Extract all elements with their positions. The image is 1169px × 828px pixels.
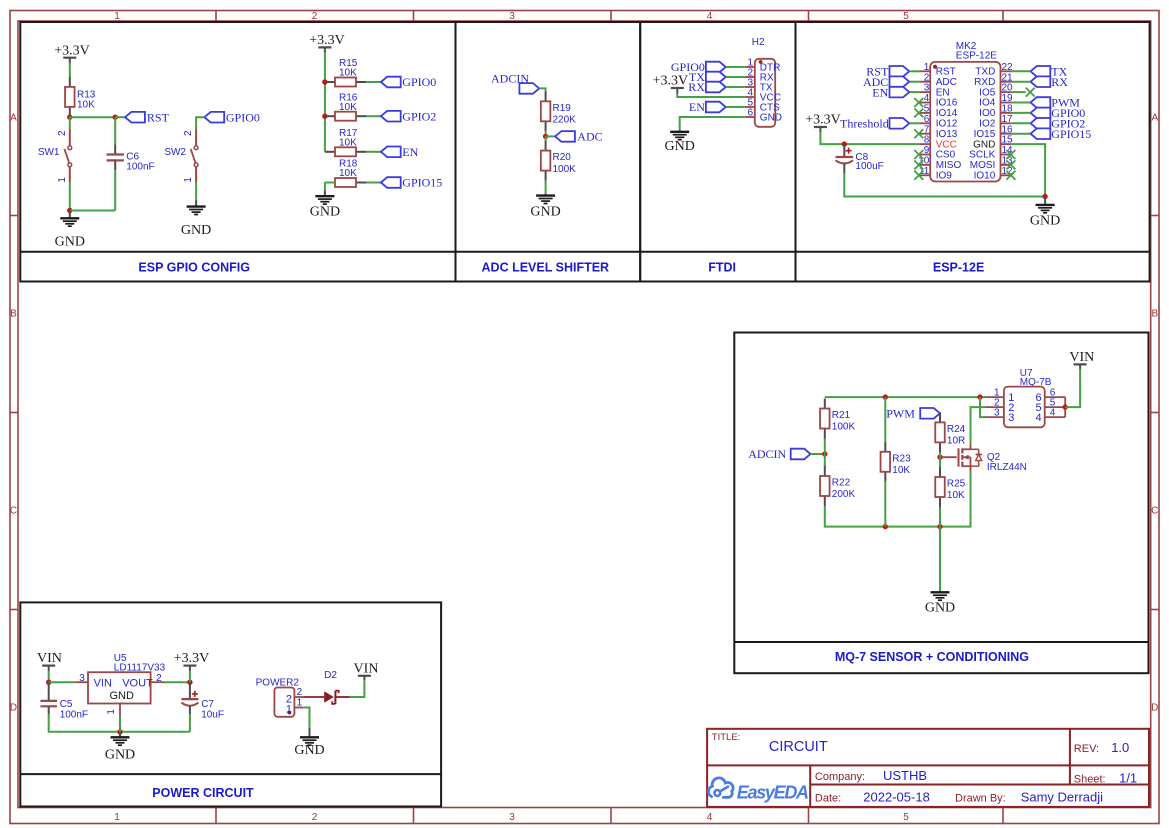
- svg-text:1: 1: [183, 177, 194, 183]
- wire: [820, 132, 919, 144]
- label Q2 IRLZ44N: [987, 452, 1027, 473]
- pin number 1 (U5): [106, 709, 117, 715]
- title block label TITLE:: [712, 732, 741, 743]
- svg-text:2022-05-18: 2022-05-18: [863, 789, 930, 804]
- svg-text:USTHB: USTHB: [883, 768, 927, 783]
- svg-text:SW1: SW1: [38, 147, 60, 158]
- power flag +3.3V (pull resistors): [309, 33, 345, 53]
- power flag +3.3V (FTDI): [653, 74, 689, 94]
- svg-text:100nF: 100nF: [126, 161, 154, 172]
- svg-text:2: 2: [297, 687, 303, 698]
- label R17 10K: [339, 128, 358, 149]
- label R18 10K: [339, 159, 358, 180]
- pin-1 marker dot MK2: [933, 65, 937, 69]
- title block label Company:: [815, 771, 865, 783]
- section box ESP-12E: [796, 22, 1150, 282]
- wire: [844, 173, 1045, 197]
- net flag ADC: [555, 130, 603, 144]
- svg-text:PWM: PWM: [886, 407, 915, 421]
- svg-text:GND: GND: [1030, 214, 1060, 229]
- svg-text:SW2: SW2: [164, 147, 186, 158]
- node junction VIN/C5/U5: [46, 680, 51, 685]
- svg-text:5: 5: [924, 104, 930, 115]
- switch SW2: [191, 130, 198, 183]
- wire: [366, 151, 381, 153]
- POWER2 pin names 2 1: [286, 693, 292, 715]
- power flag +3.3V (power out): [174, 651, 210, 671]
- wire: [545, 131, 547, 136]
- label R13 10K: [77, 90, 96, 111]
- svg-text:10K: 10K: [339, 168, 357, 179]
- svg-text:Sheet:: Sheet:: [1074, 774, 1106, 786]
- wire: [195, 182, 197, 200]
- svg-text:100nF: 100nF: [60, 710, 88, 721]
- svg-text:CS0: CS0: [936, 150, 956, 161]
- net flag PWM: [886, 407, 940, 421]
- label R21 100K: [832, 410, 856, 433]
- svg-text:1: 1: [57, 177, 68, 183]
- ruler letters left: [10, 113, 17, 714]
- svg-text:Date:: Date:: [815, 792, 841, 804]
- svg-text:1: 1: [114, 11, 120, 22]
- svg-text:C: C: [1151, 506, 1158, 517]
- section box FTDI: [640, 22, 795, 282]
- wire: [69, 63, 71, 78]
- svg-text:GND: GND: [530, 204, 560, 219]
- ruler letters right: [1151, 113, 1158, 714]
- svg-text:ESP-12E: ESP-12E: [933, 261, 984, 275]
- net flag TX (FTDI): [689, 70, 726, 84]
- label C7 10uF: [201, 699, 224, 721]
- EasyEDA logo wordmark: [737, 783, 808, 803]
- resistor R20: [541, 141, 551, 181]
- resistor R18: [325, 178, 366, 187]
- svg-text:3: 3: [994, 408, 1000, 419]
- wire: [48, 671, 50, 682]
- ground GND (SW1): [55, 211, 85, 250]
- wire: [115, 116, 125, 118]
- title block label REV:: [1074, 743, 1099, 755]
- net flag ADC (ESP): [863, 75, 909, 89]
- svg-text:H2: H2: [752, 37, 765, 48]
- svg-text:+3.3V: +3.3V: [309, 33, 345, 48]
- svg-text:1: 1: [286, 703, 292, 715]
- section box ADC LEVEL SHIFTER: [456, 22, 641, 282]
- regulator U5 body: [88, 672, 151, 703]
- svg-text:Company:: Company:: [815, 771, 865, 783]
- label R23 10K: [892, 453, 911, 476]
- wire: [69, 117, 71, 129]
- node junction R15: [322, 79, 327, 84]
- polarity + mark C8: [846, 148, 852, 154]
- svg-text:1: 1: [106, 709, 117, 715]
- pin number 2 (SW2): [183, 130, 194, 136]
- wire: [49, 681, 75, 683]
- title block label Date:: [815, 792, 841, 804]
- U5 pin name GND: [109, 690, 134, 702]
- IC MK2 ESP-12E body: [930, 62, 1000, 182]
- wire: [1011, 112, 1031, 114]
- wire: [909, 81, 919, 83]
- svg-text:MOSI: MOSI: [970, 160, 996, 171]
- net flag EN (FTDI): [689, 100, 726, 114]
- svg-text:EN: EN: [689, 100, 705, 114]
- label SW1: [38, 147, 60, 158]
- net flag PWM (ESP): [1031, 96, 1081, 110]
- net flag RX (ESP): [1031, 75, 1069, 89]
- svg-text:A: A: [1151, 113, 1158, 124]
- label MK2 ESP-12E: [956, 41, 997, 61]
- svg-text:VIN: VIN: [37, 651, 62, 666]
- svg-text:200K: 200K: [832, 489, 856, 500]
- power flag VIN (D2): [354, 661, 379, 680]
- node junction R25 bottom / GND: [937, 524, 942, 529]
- svg-text:GND: GND: [294, 743, 324, 758]
- svg-text:VOUT: VOUT: [122, 677, 153, 689]
- net flag GPIO15 (ESP): [1031, 127, 1092, 141]
- pin number 2 (SW1): [57, 130, 68, 136]
- net flag TX (ESP): [1031, 65, 1068, 79]
- svg-text:POWER CIRCUIT: POWER CIRCUIT: [152, 786, 254, 800]
- svg-text:EN: EN: [936, 87, 950, 98]
- wire: [726, 106, 745, 108]
- svg-text:TITLE:: TITLE:: [712, 732, 741, 743]
- ruler ticks top: [216, 11, 1003, 22]
- resistor R21: [820, 399, 830, 439]
- svg-text:C: C: [10, 506, 17, 517]
- ground GND (ESP): [1030, 197, 1060, 229]
- ground GND (SW2): [181, 200, 211, 238]
- svg-text:2: 2: [312, 812, 318, 823]
- no-connect X pin 4: [914, 98, 923, 107]
- label H2: [752, 37, 765, 48]
- svg-text:8: 8: [924, 135, 930, 146]
- wire: [980, 397, 985, 417]
- header H2 pin names: [760, 63, 782, 124]
- title block value CIRCUIT: [769, 739, 828, 755]
- capacitor C7 (polarized): [181, 682, 198, 714]
- section box POWER CIRCUIT: [20, 602, 441, 806]
- svg-text:TXD: TXD: [975, 67, 995, 78]
- node junction VOUT/C7: [187, 680, 192, 685]
- wire: [114, 170, 116, 210]
- svg-text:IO13: IO13: [936, 129, 958, 140]
- svg-text:GPIO15: GPIO15: [402, 176, 442, 190]
- wire: [545, 181, 547, 194]
- svg-text:1: 1: [924, 62, 930, 73]
- header H2: [755, 59, 775, 127]
- section box MQ-7 SENSOR + CONDITIONING: [734, 333, 1148, 674]
- wire: [114, 117, 116, 144]
- connector POWER2: [274, 688, 294, 717]
- svg-text:ESP-12E: ESP-12E: [956, 50, 997, 61]
- title block frame: [707, 729, 1149, 808]
- wire: [324, 52, 326, 152]
- node junction ADCIN tap: [822, 451, 827, 456]
- svg-text:R20: R20: [553, 152, 572, 163]
- svg-text:2: 2: [183, 130, 194, 136]
- title block value USTHB: [883, 768, 927, 783]
- MK2 left pin stubs: [919, 71, 930, 175]
- svg-text:REV:: REV:: [1074, 743, 1099, 755]
- resistor R22: [820, 466, 830, 506]
- resistor R15: [325, 78, 366, 87]
- svg-text:R22: R22: [832, 478, 851, 489]
- net flag EN (ESP): [872, 85, 909, 99]
- title block value 2022-05-18: [863, 789, 930, 804]
- node junction R23 top: [883, 394, 888, 399]
- pin number 1 (SW2): [183, 177, 194, 183]
- U7 right pin names: [1035, 392, 1041, 424]
- wire: [811, 453, 825, 455]
- section box ESP GPIO CONFIG: [20, 22, 455, 282]
- U7 right pin stubs: [1045, 397, 1066, 417]
- svg-text:2: 2: [57, 130, 68, 136]
- MK2 left pin numbers: [918, 62, 930, 177]
- svg-text:10K: 10K: [339, 102, 357, 113]
- svg-text:D: D: [10, 703, 17, 714]
- svg-text:10K: 10K: [947, 490, 965, 501]
- svg-text:GPIO0: GPIO0: [402, 75, 436, 89]
- wire: [69, 182, 71, 211]
- svg-text:4: 4: [707, 11, 713, 22]
- node junction R16: [322, 114, 327, 119]
- svg-text:6: 6: [747, 108, 753, 119]
- svg-text:VIN: VIN: [94, 677, 112, 689]
- U7 left pin stubs: [985, 397, 1004, 417]
- svg-text:RXD: RXD: [974, 77, 995, 88]
- wire: [1065, 369, 1080, 408]
- title block label Drawn By:: [955, 792, 1006, 804]
- svg-text:VIN: VIN: [354, 661, 379, 676]
- node junction SW1/C6/GND: [67, 208, 72, 213]
- svg-text:C7: C7: [201, 699, 214, 710]
- no-connect X pin 7: [914, 129, 923, 138]
- header H2 pin stubs: [745, 67, 755, 117]
- wire: [884, 482, 886, 527]
- svg-text:D: D: [1151, 703, 1158, 714]
- POWER2 pin numbers 2 1: [297, 687, 303, 709]
- svg-text:GND: GND: [925, 601, 955, 616]
- svg-text:4: 4: [924, 93, 930, 104]
- svg-text:IO10: IO10: [974, 171, 996, 182]
- svg-text:VCC: VCC: [936, 139, 957, 150]
- diode D2 (schottky): [303, 691, 349, 704]
- label U7 MQ-7B: [1020, 368, 1052, 388]
- svg-text:R25: R25: [947, 479, 966, 490]
- svg-text:+3.3V: +3.3V: [174, 651, 210, 666]
- wire: [350, 680, 365, 697]
- svg-text:100K: 100K: [553, 164, 577, 175]
- no-connect X pin 11: [914, 171, 923, 180]
- svg-text:GND: GND: [55, 234, 85, 249]
- node junction C6/RST: [113, 115, 118, 120]
- U5 pin name VOUT: [122, 677, 153, 689]
- label R20 100K: [553, 152, 577, 175]
- no-connect X pin 9: [914, 150, 923, 159]
- power flag VIN (MQ7): [1069, 350, 1094, 369]
- svg-text:D2: D2: [324, 670, 337, 681]
- wire: [824, 439, 826, 467]
- no-connect X pin 13: [1006, 160, 1015, 169]
- svg-text:4: 4: [1035, 412, 1041, 424]
- svg-text:+3.3V: +3.3V: [54, 43, 90, 58]
- node junction ADC divider: [543, 134, 548, 139]
- wire: [909, 122, 919, 124]
- resistor R13: [65, 77, 75, 117]
- label SW2: [164, 147, 186, 158]
- svg-text:3: 3: [924, 83, 930, 94]
- label R22 200K: [832, 478, 856, 501]
- wire: [164, 681, 190, 683]
- svg-text:ADCIN: ADCIN: [748, 447, 786, 461]
- svg-text:1/1: 1/1: [1119, 771, 1137, 786]
- net flag GPIO15: [381, 176, 442, 190]
- svg-text:IO4: IO4: [979, 98, 996, 109]
- net flag EN: [381, 145, 419, 159]
- transistor Q2 IRLZ44N: [940, 444, 982, 471]
- resistor R24: [935, 412, 945, 452]
- regulator U5 pin stubs: [75, 682, 163, 716]
- ground GND (MQ7): [925, 592, 955, 616]
- wire: [971, 407, 986, 444]
- title block value 1/1: [1119, 771, 1137, 786]
- label C8 100uF: [855, 152, 883, 172]
- svg-text:1: 1: [114, 812, 120, 823]
- U7 right pins tie: [1064, 397, 1066, 417]
- svg-text:IO0: IO0: [979, 108, 996, 119]
- net flag RX (FTDI): [688, 80, 725, 94]
- pin-1 marker dot H2: [759, 60, 763, 64]
- wire: [726, 66, 745, 68]
- svg-text:VIN: VIN: [1069, 350, 1094, 365]
- wire: [539, 88, 545, 91]
- svg-text:GND: GND: [973, 139, 995, 150]
- ruler numbers top: [114, 11, 909, 22]
- label R15 10K: [339, 58, 358, 79]
- svg-text:MISO: MISO: [936, 160, 962, 171]
- wire: [726, 76, 745, 78]
- label POWER2: [256, 677, 300, 688]
- wire: [1011, 91, 1026, 93]
- U7 right pin numbers: [1050, 388, 1056, 419]
- svg-text:100uF: 100uF: [855, 161, 883, 172]
- svg-text:3: 3: [79, 673, 85, 684]
- svg-text:3: 3: [509, 11, 515, 22]
- wire: [909, 91, 919, 93]
- wire: [680, 117, 745, 131]
- wire: [49, 714, 190, 732]
- wire: [1011, 81, 1031, 83]
- node junction C8/VCC: [842, 141, 847, 146]
- resistor R17: [325, 147, 366, 156]
- U7 left pin names: [1008, 392, 1014, 424]
- wire: [884, 397, 886, 442]
- no-connect X pin 20: [1026, 88, 1035, 97]
- svg-text:2: 2: [312, 11, 318, 22]
- U7 left pin numbers: [994, 388, 1000, 419]
- svg-text:B: B: [1151, 309, 1158, 320]
- EasyEDA logo cloud: [708, 778, 733, 798]
- svg-text:1: 1: [297, 698, 303, 709]
- node junction U7 pin1: [977, 394, 982, 399]
- capacitor C6: [107, 144, 124, 170]
- wire: [196, 117, 204, 129]
- node junction U7 right pins: [1063, 404, 1068, 409]
- svg-text:6: 6: [924, 114, 930, 125]
- svg-text:5: 5: [903, 11, 909, 22]
- svg-text:GPIO0: GPIO0: [226, 110, 260, 124]
- svg-text:R24: R24: [947, 424, 966, 435]
- svg-text:9: 9: [924, 145, 930, 156]
- wire: [726, 86, 745, 88]
- svg-text:10K: 10K: [892, 465, 910, 476]
- svg-text:IO5: IO5: [979, 87, 996, 98]
- no-connect X pin 12: [1006, 171, 1015, 180]
- svg-text:10R: 10R: [947, 436, 965, 447]
- node junction R13/SW1/RST: [67, 115, 72, 120]
- node junction ESP GND: [1042, 194, 1047, 199]
- wire: [70, 116, 115, 118]
- svg-text:Threshold: Threshold: [840, 117, 889, 131]
- resistor R25: [935, 467, 945, 507]
- net flag GPIO0 (FTDI): [671, 60, 726, 74]
- svg-text:ADC: ADC: [577, 130, 602, 144]
- polarity + mark C7: [192, 691, 198, 697]
- net flag GPIO0: [381, 75, 436, 89]
- svg-text:EN: EN: [402, 145, 418, 159]
- wire: [366, 182, 381, 184]
- ruler ticks right: [1151, 216, 1159, 610]
- svg-text:5: 5: [903, 812, 909, 823]
- resistor R19: [541, 91, 551, 131]
- wire: [545, 136, 547, 140]
- header H2 pin numbers: [747, 58, 753, 119]
- svg-text:R19: R19: [553, 103, 572, 114]
- label R24 10R: [947, 424, 966, 447]
- wire: [825, 471, 971, 527]
- svg-text:GPIO15: GPIO15: [1051, 127, 1091, 141]
- svg-text:1.0: 1.0: [1111, 740, 1129, 755]
- ground GND (FTDI): [665, 131, 695, 154]
- no-connect X pin 14: [1006, 150, 1015, 159]
- svg-text:C5: C5: [60, 699, 73, 710]
- switch SW1: [64, 130, 71, 183]
- wire: [1011, 133, 1031, 135]
- wire: [325, 182, 335, 184]
- wire: [324, 183, 326, 191]
- svg-text:B: B: [10, 309, 17, 320]
- MK2 right pin numbers: [1002, 62, 1014, 177]
- MK2 right pin stubs: [1001, 71, 1011, 175]
- wire: [366, 81, 381, 83]
- svg-text:CIRCUIT: CIRCUIT: [769, 739, 828, 755]
- ruler numbers bottom: [114, 812, 909, 823]
- no-connect X pin 10: [914, 160, 923, 169]
- wire: [1011, 102, 1031, 104]
- label C6 100nF: [126, 151, 154, 172]
- MK2 right pin names: [969, 67, 996, 182]
- IC U7 MQ-7B body: [1004, 387, 1045, 428]
- label R25 10K: [947, 479, 966, 502]
- wire: [909, 70, 919, 72]
- svg-text:100K: 100K: [832, 422, 856, 433]
- label R16 10K: [339, 92, 358, 113]
- label D2: [324, 670, 337, 681]
- node junction R23 bottom: [883, 524, 888, 529]
- ground GND (ADC divider): [530, 194, 560, 220]
- svg-text:10uF: 10uF: [201, 710, 224, 721]
